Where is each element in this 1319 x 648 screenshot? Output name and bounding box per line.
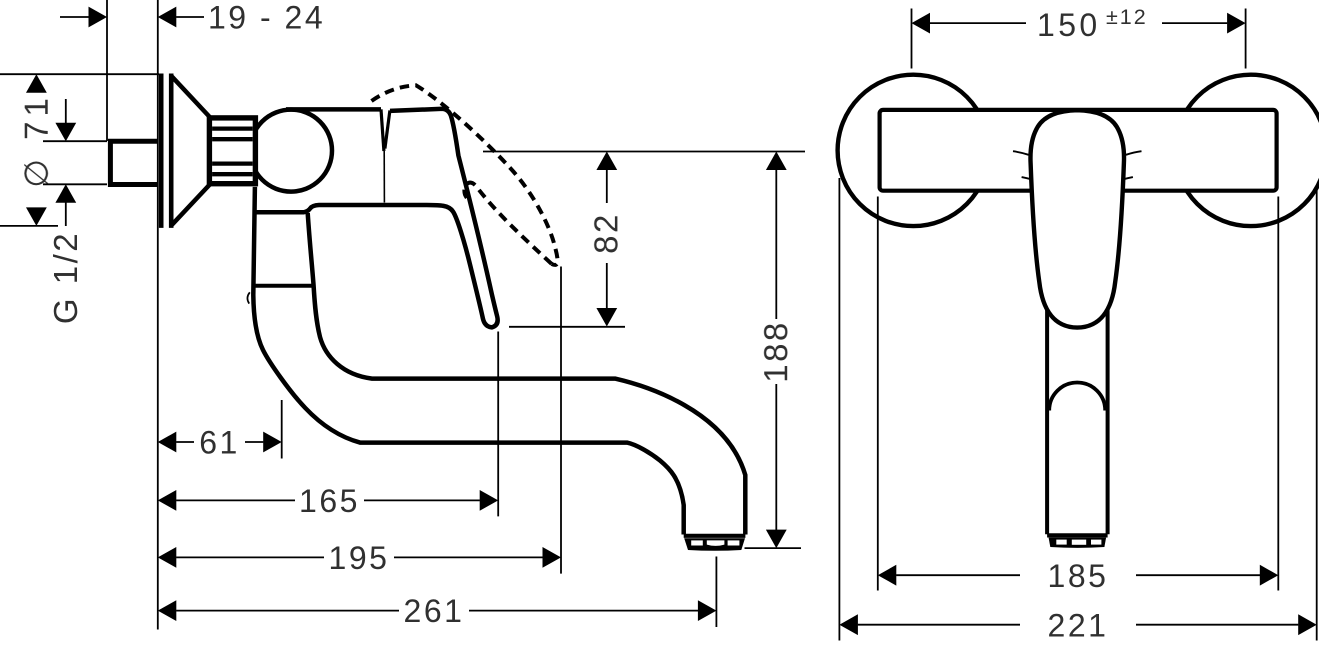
dimension 165 arrows and line xyxy=(158,490,177,511)
ball joint xyxy=(250,110,332,192)
G 1/2 upper extension line xyxy=(43,140,107,142)
svg-text:61: 61 xyxy=(199,425,240,461)
column front bottom edge xyxy=(1047,533,1108,537)
165 extension line xyxy=(497,332,499,517)
dimension 188 arrows and line xyxy=(766,152,787,171)
handle whisker right upper xyxy=(1126,151,1142,155)
union nut body xyxy=(209,118,255,184)
dia 71 lower arrow xyxy=(26,207,47,226)
wall plane extension line xyxy=(157,0,159,630)
svg-text:82: 82 xyxy=(588,212,625,254)
handle whisker right lower xyxy=(1123,177,1133,179)
lever handle raised position upper dashed edge xyxy=(372,85,558,265)
right escutcheon circle xyxy=(1175,75,1319,226)
escutcheon plate outer line xyxy=(159,74,164,228)
61 extension line xyxy=(281,400,283,459)
G 1/2 upper arrow xyxy=(55,123,76,142)
svg-text:19 - 24: 19 - 24 xyxy=(208,0,325,36)
195 extension line xyxy=(560,267,562,574)
svg-text:261: 261 xyxy=(404,593,465,629)
body-handle notch left edge xyxy=(381,109,384,151)
mixer body top edge xyxy=(286,107,381,112)
svg-text:150: 150 xyxy=(1037,7,1101,43)
dimension 82 arrows and line xyxy=(596,152,617,171)
front handle body xyxy=(1030,110,1124,327)
lever handle (down position) and body bottom xyxy=(255,109,498,328)
spout column right edge, inner bend, spout top edge, outer drop curve xyxy=(308,213,746,535)
221 left extension line xyxy=(838,178,840,641)
aerator front view xyxy=(1049,538,1107,548)
body joint thin line xyxy=(383,151,385,203)
column whisker mark xyxy=(247,292,249,303)
185 right extension line xyxy=(1277,197,1279,591)
G 1/2 lower arrow xyxy=(55,184,76,203)
dimension 261 arrows and line xyxy=(158,600,177,621)
dimension 150 arrows and line xyxy=(912,13,931,34)
dimension 61 arrows and line xyxy=(158,432,177,453)
body-handle notch right edge xyxy=(385,110,390,148)
wall connection block G1/2 nipple xyxy=(110,141,157,184)
dimension 185 arrows and line xyxy=(878,565,897,586)
dia 71 upper arrow xyxy=(26,74,47,93)
G 1/2 lower extension line xyxy=(43,183,107,185)
svg-text:221: 221 xyxy=(1048,607,1109,643)
extension line, top left (wall fitting depth) xyxy=(106,0,108,141)
spout column inner arch xyxy=(1049,383,1105,411)
svg-text:188: 188 xyxy=(757,320,794,383)
union nut ridge 2 xyxy=(212,137,253,141)
left escutcheon circle xyxy=(838,75,989,226)
svg-text:±12: ±12 xyxy=(1106,5,1148,29)
svg-text:G 1/2: G 1/2 xyxy=(47,231,84,324)
dimension 195 arrows and line xyxy=(158,547,177,568)
union nut ridge 4 xyxy=(212,172,253,176)
185 left extension line xyxy=(877,197,879,591)
handle whisker left upper xyxy=(1013,151,1029,155)
spout column front right edge xyxy=(1106,300,1110,534)
spout column front left edge xyxy=(1045,300,1049,534)
82 top reference line xyxy=(483,151,805,153)
dimension 19 - 24 arrows and line xyxy=(89,7,108,28)
82 bottom reference line xyxy=(509,326,625,328)
spout outlet end edge xyxy=(684,534,746,538)
150 left extension line xyxy=(911,9,913,69)
dia 71 top extension line xyxy=(0,73,159,75)
221 right extension line xyxy=(1316,185,1318,641)
188 bottom reference line xyxy=(745,547,802,549)
aerator left view xyxy=(684,538,745,551)
dimension 221 arrows and line xyxy=(839,614,858,635)
svg-text:195: 195 xyxy=(329,540,390,576)
dia 71 bottom extension line xyxy=(0,225,58,227)
svg-text:165: 165 xyxy=(299,483,360,519)
union nut ridge 3 xyxy=(212,161,253,165)
handle whisker left lower xyxy=(1022,177,1032,179)
union nut ridge 1 xyxy=(212,126,253,130)
svg-text:185: 185 xyxy=(1048,558,1109,594)
spout pipe joint line xyxy=(253,284,314,288)
lever handle raised position lower dashed edge xyxy=(464,183,551,264)
escutcheon plate inner line xyxy=(169,74,174,228)
escutcheon cone top edge xyxy=(171,76,210,118)
spout column left edge, outer bend, spout bottom edge, inner drop curve xyxy=(253,187,683,535)
150 right extension line xyxy=(1245,9,1247,69)
wall bar body xyxy=(880,110,1277,191)
escutcheon cone bottom edge xyxy=(171,184,210,226)
261 extension line xyxy=(715,557,717,628)
